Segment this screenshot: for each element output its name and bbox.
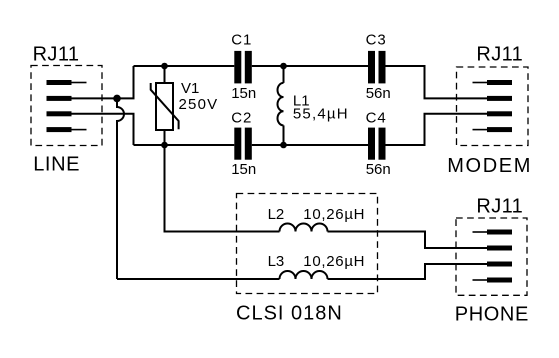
svg-text:C4: C4 — [366, 110, 387, 127]
connector J2 RJ11 MODEM — [457, 67, 529, 146]
svg-text:L2: L2 — [268, 206, 285, 223]
svg-text:10,26µH: 10,26µH — [303, 206, 365, 223]
wire: bottom rail left segment — [134, 144, 235, 146]
inductor L2 — [280, 224, 328, 232]
svg-text:L3: L3 — [268, 253, 285, 270]
wire: bottom rail right segment to MODEM pin3 — [386, 114, 488, 145]
connector J3 RJ11 PHONE — [456, 218, 527, 295]
wire: L3 run from hop wire — [117, 278, 280, 280]
svg-text:MODEM: MODEM — [447, 155, 532, 177]
svg-text:C3: C3 — [366, 32, 387, 49]
svg-text:C1: C1 — [231, 32, 252, 49]
svg-text:RJ11: RJ11 — [476, 196, 523, 218]
svg-text:PHONE: PHONE — [455, 303, 529, 325]
wire: node A up to top rail — [117, 66, 134, 98]
node A junction dot — [113, 95, 121, 103]
wire: bottom rail middle segment — [252, 144, 368, 146]
inductor L1 — [277, 66, 283, 145]
wire: top rail right segment to MODEM pin2 — [386, 66, 488, 98]
junction dot L1 bottom — [280, 142, 287, 149]
svg-text:RJ11: RJ11 — [476, 43, 523, 65]
capacitor C3 — [368, 51, 386, 84]
svg-text:56n: 56n — [366, 85, 391, 102]
inductor L3 — [280, 271, 328, 279]
capacitor C4 — [368, 128, 386, 160]
wire: top rail middle segment — [252, 65, 368, 67]
wire: top rail left segment — [134, 65, 235, 67]
svg-text:56n: 56n — [366, 161, 391, 178]
junction dot V1 bottom — [161, 142, 168, 149]
varistor V1 — [151, 66, 179, 145]
module CLSI 018N dashed box — [237, 194, 378, 294]
wire: L2 to PHONE pin2 — [328, 232, 488, 249]
svg-text:C2: C2 — [231, 110, 252, 127]
capacitor C2 — [234, 128, 252, 160]
wire: V1 bottom down to L2 — [165, 145, 280, 232]
wire: LINE pin3 down to bottom rail — [72, 114, 134, 145]
svg-text:15n: 15n — [231, 161, 256, 178]
svg-text:15n: 15n — [231, 85, 256, 102]
connector J1 RJ11 LINE — [31, 66, 102, 146]
svg-text:55,4µH: 55,4µH — [293, 106, 349, 123]
svg-text:250V: 250V — [179, 96, 219, 113]
svg-text:RJ11: RJ11 — [33, 44, 80, 66]
capacitor C1 — [234, 51, 252, 84]
wire: LINE pin2 to node A — [72, 97, 118, 99]
junction dot V1 top — [161, 63, 168, 70]
svg-text:V1: V1 — [181, 80, 199, 97]
svg-text:10,26µH: 10,26µH — [303, 253, 365, 270]
svg-text:CLSI 018N: CLSI 018N — [236, 302, 343, 324]
wire: L3 to PHONE pin3 — [328, 264, 488, 279]
wire: node A hop over pin3 wire, down to L3 — [117, 98, 124, 279]
junction dot L1 top — [280, 63, 287, 70]
svg-text:LINE: LINE — [33, 154, 80, 176]
